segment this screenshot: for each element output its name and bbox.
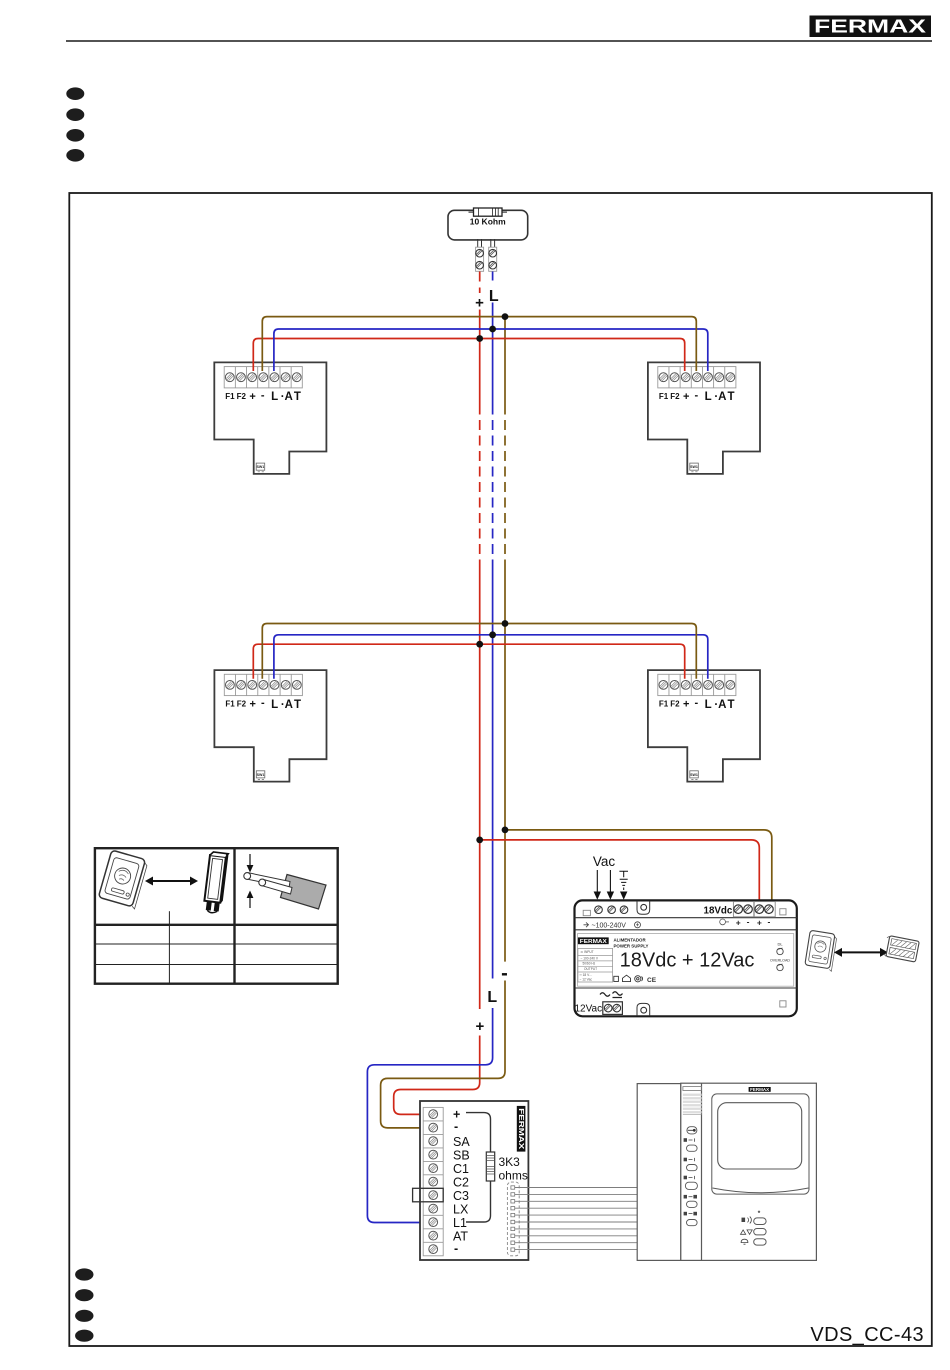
distributor unit U2 — [420, 1101, 528, 1260]
svg-text:~ 100-240 V: ~ 100-240 V — [581, 956, 599, 960]
monitor button group 2 — [684, 1158, 698, 1171]
earth ground symbol — [619, 871, 628, 899]
svg-text:Vac: Vac — [593, 854, 616, 869]
polarity labels + - + - — [720, 916, 771, 927]
svg-text:-: - — [767, 916, 770, 926]
Vac feed arrow 2 — [607, 870, 614, 900]
junction row1 on - — [502, 313, 509, 320]
wall plate in table — [98, 850, 148, 909]
svg-text:C3: C3 — [453, 1189, 469, 1203]
DL indicator — [770, 942, 790, 971]
svg-text:+: + — [475, 295, 484, 312]
cable gauge arrows — [247, 854, 254, 908]
Vac feed arrow 1 — [594, 870, 601, 900]
compatibility table — [95, 848, 338, 984]
svg-text:C1: C1 — [453, 1162, 469, 1176]
ratings table — [578, 948, 613, 982]
wire - riser (brown, dashed trunk) — [504, 405, 506, 564]
distributor terminal strip — [423, 1107, 443, 1255]
junction row2 on + — [476, 641, 483, 648]
telephone T2 (top right) — [648, 362, 760, 474]
monitor control row 2 — [741, 1229, 767, 1235]
handset bracket in table — [203, 852, 228, 914]
wire L riser (blue, dashed trunk) — [492, 405, 494, 564]
wire bus row2 L (blue) — [274, 635, 708, 679]
svg-text:~100-240V: ~100-240V — [592, 922, 627, 929]
12Vac output terminals — [603, 1002, 623, 1015]
FERMAX tag on distributor — [517, 1106, 526, 1152]
end-of-line resistor plate — [448, 210, 528, 247]
svg-text:L: L — [487, 989, 497, 1006]
wire feed to PSU + (red) — [480, 840, 760, 900]
monitor button group 3 — [684, 1176, 698, 1190]
svg-text:⊜ INPUT: ⊜ INPUT — [581, 950, 594, 954]
wire L riser (blue, dashed top) — [492, 272, 494, 285]
svg-text:CE: CE — [647, 977, 657, 984]
telephone T4 (lower right) — [648, 670, 760, 782]
wire bus row1 + (red) — [253, 339, 684, 372]
bullet list top-left — [66, 87, 84, 161]
FERMAX nameplate — [578, 937, 649, 948]
wire bus row1 - (brown) — [262, 317, 696, 371]
diagram frame — [69, 193, 932, 1346]
svg-text:-: - — [454, 1242, 458, 1256]
swap arrow in table — [145, 877, 198, 886]
monitor screen — [718, 1103, 802, 1169]
svg-text:VDS_CC-43: VDS_CC-43 — [810, 1324, 924, 1346]
stripped cable drawing — [244, 873, 326, 909]
svg-text:POWER SUPPLY: POWER SUPPLY — [614, 943, 649, 948]
svg-text:ohms: ohms — [499, 1169, 528, 1183]
swap arrow — [834, 948, 888, 957]
C3 jumper box — [413, 1188, 444, 1202]
svg-text:-: - — [454, 1120, 458, 1134]
wire bus row2 - (brown) — [262, 624, 696, 679]
svg-text:SB: SB — [453, 1149, 470, 1163]
svg-text:FERMAX: FERMAX — [750, 1087, 769, 1092]
svg-text:SA: SA — [453, 1135, 470, 1149]
monitor FERMAX logo — [749, 1087, 771, 1092]
wire + riser (red, dashed top) — [479, 272, 481, 294]
bullet list bottom-left — [75, 1268, 93, 1341]
telephone T3 (lower left) — [214, 670, 326, 782]
wire - riser (brown, solid trunk) — [504, 563, 506, 962]
monitor speaker grille — [683, 1087, 702, 1115]
svg-text:10 Kohm: 10 Kohm — [470, 217, 506, 227]
wire + riser (red, solid trunk) — [479, 563, 481, 1009]
connector block beside PSU — [883, 935, 919, 962]
power supply internal rails — [575, 918, 797, 988]
svg-text:18Vdc: 18Vdc — [704, 906, 733, 917]
svg-text:-: - — [501, 963, 508, 985]
monitor indicator led — [758, 1211, 760, 1213]
monitor button group 1 — [684, 1138, 698, 1151]
svg-text:-: - — [747, 916, 750, 926]
distributor pin labels — [453, 1108, 470, 1256]
junction row1 on + — [476, 335, 483, 342]
svg-text:L1: L1 — [453, 1216, 467, 1230]
monitor connector socket — [507, 1182, 519, 1256]
svg-text:OVERLOAD: OVERLOAD — [770, 959, 790, 963]
wire + riser (red, solid) — [479, 310, 481, 405]
terminal block right — [489, 247, 497, 271]
monitor button group 4 — [684, 1195, 698, 1207]
ribbon cable to monitor — [515, 1188, 638, 1250]
svg-text:3K3: 3K3 — [499, 1155, 521, 1169]
terminal block left — [476, 247, 484, 271]
mains rating row — [584, 922, 641, 930]
wire bus row1 L (blue) — [274, 329, 708, 371]
bezel bottom curve — [713, 1188, 809, 1193]
monitor control row 1 — [742, 1217, 767, 1225]
svg-text:12Vac: 12Vac — [575, 1004, 603, 1015]
telephone T1 (top left) — [214, 362, 326, 474]
svg-text:L: L — [489, 288, 499, 305]
monitor control row 3 (door) — [741, 1239, 766, 1245]
svg-text:OUTPUT: OUTPUT — [584, 967, 597, 971]
wire + riser (red, dashed trunk) — [479, 405, 481, 564]
small square bottom right — [780, 1001, 786, 1007]
junction row3 on - — [502, 827, 509, 834]
monitor M1 body — [637, 1083, 816, 1260]
wire L drop to distributor (blue) — [367, 1008, 492, 1223]
wire L riser (blue, solid trunk) — [492, 563, 494, 979]
mains screw terminals — [583, 906, 628, 916]
ac symbols — [600, 992, 623, 998]
resistor R2 3K3 wire — [466, 1113, 491, 1222]
mounting tab bottom — [637, 1003, 650, 1016]
svg-text:LX: LX — [453, 1203, 469, 1217]
svg-text:~ 12 Vac: ~ 12 Vac — [580, 978, 593, 982]
wire + drop to distributor (red) — [394, 1036, 480, 1115]
monitor key button — [687, 1127, 697, 1134]
certification icons — [614, 975, 657, 984]
svg-text:DL: DL — [777, 942, 783, 947]
svg-text:FERMAX: FERMAX — [517, 1108, 526, 1149]
monitor screen bezel — [712, 1094, 809, 1194]
resistor R 10 Kohm — [469, 208, 508, 216]
junction row3 on + — [476, 837, 483, 844]
svg-text:+: + — [476, 1018, 485, 1035]
wall plate beside PSU — [804, 930, 837, 971]
monitor button group 5 — [684, 1212, 698, 1226]
label panel frame — [578, 934, 794, 987]
junction row2 on L — [489, 631, 496, 638]
power supply U1 outline — [575, 900, 797, 1016]
svg-text:18Vdc + 12Vac: 18Vdc + 12Vac — [620, 950, 755, 972]
resistor R2 3K3 body — [486, 1152, 494, 1181]
junction row2 on - — [502, 620, 509, 627]
18Vdc output terminals — [733, 902, 786, 917]
svg-text:C2: C2 — [453, 1176, 469, 1190]
wire bus row2 + (red) — [253, 644, 684, 679]
wire - riser (brown, solid) — [504, 317, 506, 405]
svg-text:FERMAX: FERMAX — [814, 17, 926, 37]
svg-text:FERMAX: FERMAX — [580, 939, 607, 945]
header rule — [66, 40, 932, 42]
wire - drop to distributor (brown) — [381, 981, 505, 1128]
junction row1 on L — [489, 326, 496, 333]
FERMAX logo — [810, 16, 932, 38]
svg-text:═ 18 V…: ═ 18 V… — [579, 973, 593, 977]
svg-text:50/60 Hz: 50/60 Hz — [583, 962, 596, 966]
wire L riser (blue, solid) — [492, 303, 494, 405]
svg-text:+: + — [736, 917, 741, 927]
svg-text:ALIMENTADOR: ALIMENTADOR — [614, 938, 647, 943]
wire feed to PSU - (brown) — [505, 830, 772, 900]
svg-text:+: + — [757, 917, 762, 927]
mounting tab top — [637, 901, 650, 915]
